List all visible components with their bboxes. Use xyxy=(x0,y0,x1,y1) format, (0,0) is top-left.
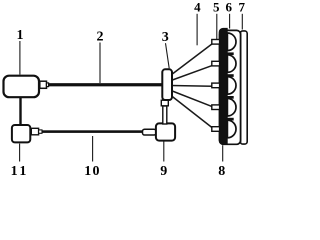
svg-text:8: 8 xyxy=(218,164,225,176)
svg-text:5: 5 xyxy=(213,0,220,14)
svg-text:1: 1 xyxy=(17,28,24,43)
svg-text:9: 9 xyxy=(160,164,167,176)
svg-text:3: 3 xyxy=(162,30,169,45)
svg-text:2: 2 xyxy=(97,29,104,44)
svg-text:11: 11 xyxy=(11,164,29,176)
svg-text:10: 10 xyxy=(84,164,100,176)
svg-text:6: 6 xyxy=(225,0,232,14)
svg-text:4: 4 xyxy=(194,0,201,14)
svg-text:7: 7 xyxy=(238,0,245,14)
